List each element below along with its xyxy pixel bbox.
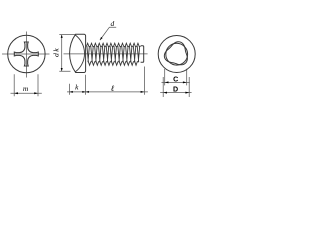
thread crest circle, end view: [166, 43, 188, 65]
screw tip: [141, 46, 144, 63]
head outline, front view (circle dk): [8, 35, 45, 72]
crown radius arc on head face: [75, 35, 84, 72]
svg-text:D: D: [173, 86, 178, 94]
arrowheads C: [165, 81, 187, 83]
centerline horizontal, head front view: [2, 53, 50, 55]
head outline, end view (outer circle): [158, 36, 195, 73]
centerline vertical, head front view: [25, 32, 27, 78]
leader line for d: [100, 27, 116, 40]
thread crests, bottom silhouette: [88, 62, 138, 66]
dimensions k and l: extension + dimension lines: [67, 67, 148, 95]
svg-text:ℓ: ℓ: [111, 84, 115, 93]
arrowhead of d leader: [100, 37, 103, 40]
svg-text:C: C: [173, 76, 178, 84]
arrowheads dk: [61, 35, 63, 72]
svg-text:m: m: [23, 84, 29, 93]
arrowheads m: [14, 92, 38, 94]
thread flank lines: [87, 46, 140, 62]
thread crests, top silhouette: [86, 43, 140, 46]
arrowheads D: [163, 92, 189, 94]
dimension m: extension + dimension lines: [11, 74, 42, 96]
dimension dk: dimension + extension lines: [59, 35, 75, 72]
phillips cross recess, front view: [14, 42, 38, 66]
arrowheads k: [70, 91, 86, 93]
svg-text:dk: dk: [51, 47, 60, 57]
screw axis centerline, side view: [64, 53, 148, 55]
arrowheads l: [86, 91, 145, 93]
svg-text:d: d: [111, 19, 115, 28]
dimension C: extension + dimension lines: [162, 69, 190, 86]
dimension D: extension + dimension lines: [160, 77, 191, 97]
pan head outline, side view: [70, 34, 86, 72]
trilobular body cross-section, end view: [164, 42, 187, 65]
